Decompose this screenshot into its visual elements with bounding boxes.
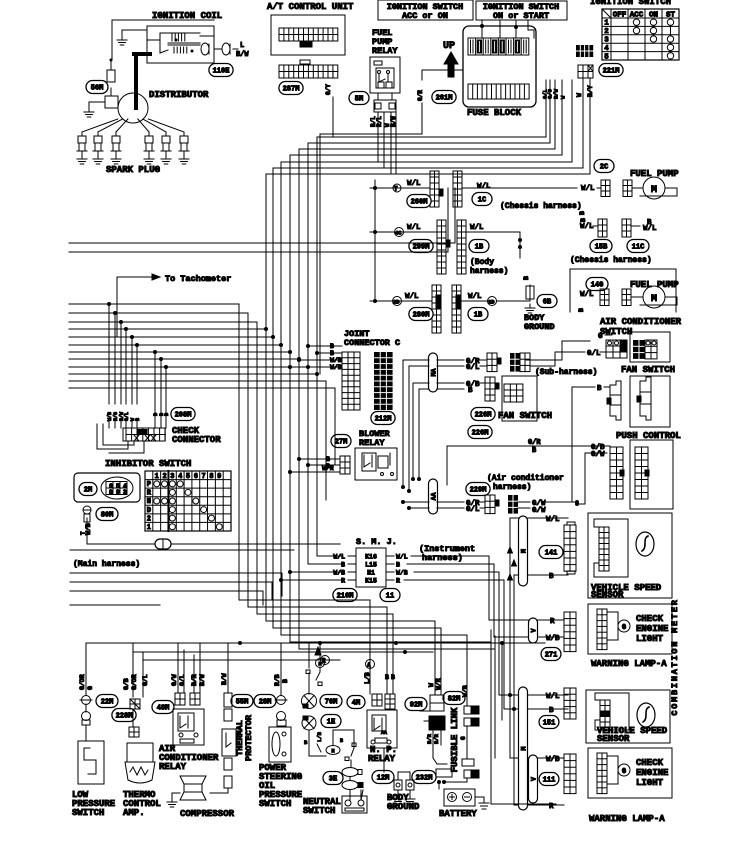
svg-text:111: 111	[543, 777, 556, 785]
svg-text:WARNING LAMP-A: WARNING LAMP-A	[589, 814, 665, 824]
svg-text:M: M	[651, 185, 657, 196]
svg-text:15B: 15B	[595, 244, 608, 252]
svg-text:226M: 226M	[472, 430, 489, 438]
svg-text:2D: 2D	[488, 299, 495, 306]
svg-text:B/R: B/R	[433, 733, 440, 744]
svg-text:280M: 280M	[413, 312, 430, 320]
svg-text:141: 141	[545, 550, 558, 558]
svg-text:SENSOR: SENSOR	[591, 590, 624, 600]
svg-text:B: B	[468, 387, 473, 395]
svg-text:M: M	[521, 549, 528, 553]
svg-text:FUEL PUMP: FUEL PUMP	[630, 280, 679, 290]
svg-text:3: 3	[604, 37, 609, 45]
svg-text:229M: 229M	[470, 487, 487, 495]
svg-text:27M: 27M	[335, 439, 348, 447]
svg-text:L: L	[240, 42, 244, 50]
svg-text:COMPRESSOR: COMPRESSOR	[180, 809, 235, 819]
svg-text:G/L: G/L	[466, 506, 480, 514]
svg-text:2: 2	[147, 515, 151, 523]
svg-text:RELAY: RELAY	[372, 46, 398, 56]
svg-text:K16: K16	[365, 554, 377, 561]
svg-text:LIGHT: LIGHT	[636, 778, 664, 788]
svg-text:B/W: B/W	[221, 673, 228, 685]
svg-text:W/B: W/B	[333, 570, 345, 577]
svg-text:260M: 260M	[411, 199, 428, 207]
svg-text:W/L: W/L	[405, 293, 419, 301]
svg-text:B/R: B/R	[426, 733, 433, 744]
svg-text:G/Y: G/Y	[325, 84, 332, 95]
svg-text:6B: 6B	[543, 299, 552, 307]
svg-text:299M: 299M	[413, 244, 430, 252]
svg-text:82M: 82M	[448, 696, 461, 704]
svg-text:W/B: W/B	[546, 635, 560, 643]
svg-text:SWITCH: SWITCH	[303, 806, 335, 816]
svg-text:L15: L15	[365, 562, 377, 569]
svg-text:To Tachometer: To Tachometer	[165, 274, 231, 284]
svg-text:G/W: G/W	[532, 507, 546, 515]
svg-text:22M: 22M	[101, 699, 114, 707]
svg-text:(Body: (Body	[470, 258, 494, 267]
svg-text:1: 1	[147, 524, 151, 532]
svg-text:8: 8	[109, 489, 113, 496]
svg-text:(Chessis harness): (Chessis harness)	[500, 202, 582, 211]
svg-text:W: W	[560, 95, 567, 99]
svg-text:IGNITION SWITCH: IGNITION SWITCH	[590, 0, 671, 7]
svg-text:ST: ST	[666, 12, 676, 20]
svg-text:B/W: B/W	[236, 51, 249, 59]
svg-text:B: B	[523, 276, 530, 280]
svg-text:L/B: L/B	[316, 731, 323, 742]
svg-text:2D: 2D	[393, 299, 400, 306]
svg-text:W/B: W/B	[396, 570, 408, 577]
svg-text:M: M	[521, 746, 528, 750]
svg-text:110E: 110E	[213, 68, 230, 76]
svg-text:1C: 1C	[478, 197, 486, 205]
svg-text:W/L: W/L	[407, 224, 421, 232]
svg-text:1: 1	[155, 473, 159, 481]
svg-text:B: B	[532, 447, 537, 455]
svg-text:G/R: G/R	[528, 439, 541, 447]
svg-text:11C: 11C	[632, 244, 645, 252]
svg-text:G: G	[87, 686, 94, 690]
svg-text:G: G	[622, 768, 626, 776]
svg-text:B: B	[549, 707, 554, 715]
svg-text:K15: K15	[365, 578, 377, 585]
svg-text:55M: 55M	[236, 699, 249, 707]
svg-text:W/L: W/L	[546, 693, 560, 701]
svg-text:232M: 232M	[416, 775, 433, 783]
svg-text:COMBINATION METER: COMBINATION METER	[670, 598, 680, 715]
svg-text:14G: 14G	[591, 282, 604, 290]
svg-text:AA: AA	[431, 493, 438, 501]
svg-text:RELAY: RELAY	[159, 762, 187, 772]
svg-text:ENGINE: ENGINE	[636, 768, 669, 778]
svg-text:W: W	[428, 683, 435, 687]
svg-text:B: B	[282, 679, 289, 683]
svg-text:1: 1	[604, 20, 609, 28]
svg-text:G: G	[622, 624, 626, 632]
svg-text:4M: 4M	[352, 700, 360, 708]
svg-text:4: 4	[604, 45, 609, 53]
svg-text:SPARK PLUG: SPARK PLUG	[106, 165, 160, 175]
svg-text:W/L: W/L	[407, 180, 421, 188]
svg-text:4: 4	[178, 473, 182, 481]
svg-text:S. M. J.: S. M. J.	[356, 537, 397, 547]
svg-text:B/W: B/W	[553, 88, 560, 99]
svg-text:CHECK: CHECK	[636, 614, 664, 624]
svg-text:ENGINE: ENGINE	[636, 624, 669, 634]
svg-text:228M: 228M	[116, 713, 133, 721]
svg-text:CONNECTOR: CONNECTOR	[172, 435, 221, 445]
svg-text:(Air conditioner: (Air conditioner	[487, 474, 564, 483]
svg-text:M: M	[651, 294, 657, 305]
svg-text:4C: 4C	[395, 230, 402, 237]
svg-text:9: 9	[116, 489, 120, 496]
svg-text:B: B	[578, 308, 585, 312]
svg-text:FUSE BLOCK: FUSE BLOCK	[467, 108, 522, 118]
svg-text:A/T CONTROL UNIT: A/T CONTROL UNIT	[267, 2, 354, 12]
svg-text:5: 5	[186, 473, 190, 481]
svg-text:B: B	[341, 562, 345, 569]
svg-text:11: 11	[386, 593, 394, 601]
svg-text:R: R	[322, 658, 326, 665]
svg-text:B: B	[597, 385, 602, 393]
svg-text:FUSIBLE LINK: FUSIBLE LINK	[450, 707, 460, 772]
svg-text:R/B: R/B	[274, 674, 281, 686]
svg-text:G: G	[598, 333, 603, 341]
svg-text:287M: 287M	[283, 86, 300, 94]
svg-text:R: R	[550, 618, 555, 626]
svg-text:SWITCH: SWITCH	[259, 799, 291, 809]
svg-text:LIGHT: LIGHT	[636, 634, 664, 644]
svg-text:W/R: W/R	[322, 465, 334, 472]
svg-text:5M: 5M	[355, 96, 363, 104]
svg-text:28M: 28M	[259, 699, 272, 707]
svg-text:W/L: W/L	[477, 183, 491, 191]
svg-text:1B: 1B	[474, 312, 483, 320]
svg-text:B: B	[340, 738, 343, 744]
svg-text:G/L: G/L	[587, 350, 601, 358]
svg-text:212M: 212M	[375, 416, 392, 424]
svg-text:G/OR: G/OR	[79, 674, 86, 690]
svg-text:B: B	[580, 218, 587, 222]
svg-text:216M: 216M	[337, 593, 354, 601]
svg-text:SWITCH: SWITCH	[72, 808, 104, 818]
svg-text:W/L: W/L	[546, 516, 560, 524]
svg-text:V: V	[531, 777, 538, 781]
svg-text:INHIBITOR SWITCH: INHIBITOR SWITCH	[105, 459, 191, 469]
svg-text:B: B	[396, 562, 400, 569]
svg-text:RELAY: RELAY	[368, 754, 396, 764]
svg-text:W/L: W/L	[333, 554, 345, 561]
svg-text:(Chessis harness): (Chessis harness)	[570, 256, 652, 265]
svg-text:SENSOR: SENSOR	[597, 734, 630, 744]
svg-text:W/L: W/L	[581, 185, 595, 193]
svg-text:1E: 1E	[327, 719, 335, 727]
svg-text:R: R	[341, 578, 345, 585]
svg-text:AMP.: AMP.	[123, 808, 145, 818]
svg-text:M: M	[331, 749, 334, 755]
svg-text:8: 8	[209, 473, 213, 481]
svg-text:W/L: W/L	[580, 291, 594, 299]
svg-text:harness): harness)	[493, 483, 531, 492]
svg-text:G: G	[460, 736, 467, 740]
svg-text:271: 271	[545, 652, 558, 660]
svg-text:ACC or ON: ACC or ON	[402, 11, 448, 21]
svg-text:ACC: ACC	[630, 12, 644, 20]
svg-text:FAN SWITCH: FAN SWITCH	[621, 365, 675, 375]
svg-text:48M: 48M	[157, 705, 170, 713]
svg-text:GROUND: GROUND	[524, 322, 555, 332]
svg-text:226M: 226M	[475, 412, 492, 420]
svg-text:2: 2	[604, 28, 609, 36]
svg-text:N: N	[147, 498, 151, 506]
svg-text:PROTECTOR: PROTECTOR	[244, 714, 254, 761]
svg-text:1B: 1B	[475, 244, 484, 252]
svg-text:AA: AA	[381, 730, 387, 736]
svg-text:P: P	[147, 481, 151, 489]
svg-text:(Sub-harness): (Sub-harness)	[535, 368, 597, 377]
svg-text:UP: UP	[443, 41, 455, 52]
svg-text:AIR CONDITIONER: AIR CONDITIONER	[600, 317, 682, 327]
svg-text:GROUND: GROUND	[387, 802, 420, 812]
svg-text:G/L: G/L	[466, 364, 480, 372]
svg-text:DISTRIBUTOR: DISTRIBUTOR	[149, 90, 209, 100]
svg-text:harness): harness)	[470, 267, 508, 276]
svg-text:CONNECTOR C: CONNECTOR C	[344, 338, 400, 348]
svg-text:W/B: W/B	[85, 523, 92, 535]
svg-text:56M: 56M	[91, 85, 104, 93]
svg-text:G/L: G/L	[179, 674, 186, 686]
svg-text:BATTERY: BATTERY	[439, 809, 477, 819]
svg-text:G/R: G/R	[417, 90, 424, 101]
svg-text:W/L: W/L	[580, 223, 594, 231]
svg-text:221M: 221M	[603, 68, 620, 76]
svg-text:3: 3	[123, 489, 127, 496]
svg-text:V: V	[531, 628, 538, 632]
svg-text:ON: ON	[649, 12, 658, 20]
svg-text:G/W: G/W	[171, 674, 178, 686]
svg-text:N1: N1	[367, 570, 375, 577]
svg-text:W/L: W/L	[468, 293, 482, 301]
svg-text:W/B: W/B	[462, 685, 469, 697]
svg-text:208M: 208M	[175, 412, 192, 420]
svg-text:2: 2	[162, 473, 166, 481]
svg-text:W/L: W/L	[396, 554, 408, 561]
svg-text:W/B: W/B	[546, 756, 560, 764]
svg-text:151: 151	[543, 720, 556, 728]
svg-text:W: W	[576, 93, 583, 97]
svg-text:3E: 3E	[329, 776, 337, 784]
svg-text:W/L: W/L	[470, 224, 484, 232]
svg-text:R: R	[396, 578, 400, 585]
svg-text:CHECK: CHECK	[636, 758, 664, 768]
svg-text:B: B	[164, 413, 170, 416]
svg-text:R/L: R/L	[376, 116, 383, 127]
svg-text:92M: 92M	[410, 702, 423, 710]
svg-text:12M: 12M	[377, 775, 390, 783]
svg-text:ON or START: ON or START	[493, 11, 549, 21]
svg-text:6: 6	[194, 473, 198, 481]
svg-text:D: D	[147, 507, 151, 515]
svg-text:G/OR: G/OR	[131, 674, 138, 690]
svg-text:OFF: OFF	[613, 12, 627, 20]
svg-text:WARNING LAMP-A: WARNING LAMP-A	[591, 659, 667, 669]
svg-text:9: 9	[217, 473, 221, 481]
svg-text:2M: 2M	[84, 487, 92, 495]
svg-text:B: B	[579, 211, 586, 215]
svg-text:G/B: G/B	[123, 678, 130, 690]
svg-text:T: T	[394, 186, 398, 193]
svg-text:harness): harness)	[422, 553, 463, 563]
svg-text:RELAY: RELAY	[359, 438, 385, 448]
svg-text:80M: 80M	[101, 512, 114, 520]
svg-text:MA: MA	[431, 369, 438, 377]
svg-text:76M: 76M	[325, 699, 338, 707]
svg-text:7: 7	[202, 473, 206, 481]
svg-text:261M: 261M	[436, 95, 453, 103]
svg-text:5: 5	[604, 53, 609, 61]
svg-text:(Main harness): (Main harness)	[73, 560, 140, 569]
svg-text:B: B	[304, 739, 308, 746]
svg-text:G/W: G/W	[591, 451, 605, 459]
svg-text:B: B	[135, 418, 141, 421]
svg-text:3: 3	[170, 473, 174, 481]
svg-text:W/L: W/L	[643, 225, 657, 233]
svg-text:B: B	[549, 573, 554, 581]
svg-text:2C: 2C	[600, 164, 608, 172]
svg-text:FAN SWITCH: FAN SWITCH	[498, 411, 552, 421]
